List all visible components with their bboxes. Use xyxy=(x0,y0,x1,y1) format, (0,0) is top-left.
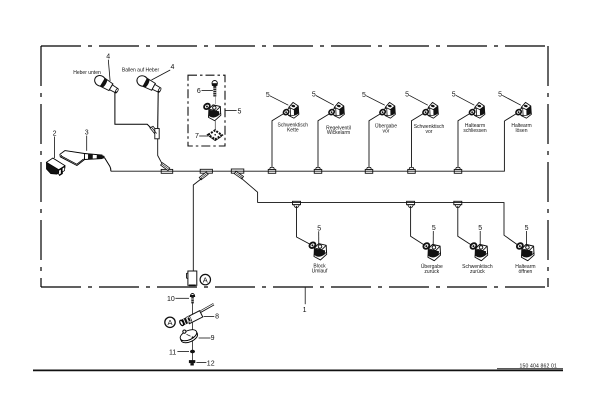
svg-text:4: 4 xyxy=(171,64,175,71)
svg-text:7: 7 xyxy=(195,133,199,140)
sensor B2 "Ballen auf Heber" (item 4) xyxy=(135,74,163,95)
wire flag F3 to second bus xyxy=(241,178,258,203)
svg-text:9: 9 xyxy=(211,335,215,342)
leader line callout 10 xyxy=(175,297,189,299)
flag clip F1 on bus xyxy=(161,163,173,174)
valve connector Y10 Haltearm öffnen xyxy=(516,242,534,261)
nut item 12 xyxy=(189,360,195,365)
valve connector Y3 xyxy=(379,102,395,118)
part number underline xyxy=(497,368,563,370)
flag clip F3 on bus xyxy=(231,169,244,179)
leader line callout 1 xyxy=(304,288,306,305)
connector housing item 2 xyxy=(47,158,66,175)
valve connector Y8 Übergabe zurück xyxy=(422,242,440,261)
svg-text:12: 12 xyxy=(207,361,215,368)
wire junction T1 to valve Y1 xyxy=(272,113,284,167)
svg-text:5: 5 xyxy=(498,92,502,99)
valve connector Y1 xyxy=(282,102,298,118)
frame: harness boundary dash-dot border xyxy=(41,46,548,287)
svg-text:5: 5 xyxy=(432,225,436,232)
sensor item 8 with cable xyxy=(179,304,214,326)
leader 5 Y1 xyxy=(270,96,288,105)
valve connector Y4 xyxy=(422,102,438,118)
label Y2 xyxy=(326,125,351,136)
svg-text:5: 5 xyxy=(478,225,482,232)
valve connector item 5 (exploded) xyxy=(203,103,221,121)
clip X joining sensor wires xyxy=(150,126,159,139)
svg-text:A: A xyxy=(203,275,208,284)
leader line callout 6 xyxy=(202,90,213,92)
wire junction T2 to valve Y2 xyxy=(318,113,330,167)
wire junction T3 to valve Y3 xyxy=(369,113,381,167)
junction T6 (second bus) xyxy=(293,201,301,207)
leader 5 Y9 xyxy=(479,231,481,246)
label Y8 xyxy=(421,263,443,275)
svg-text:5: 5 xyxy=(405,92,409,99)
washer item 11 xyxy=(190,350,195,354)
screw item 10 xyxy=(190,294,195,304)
label Y1 xyxy=(278,122,309,133)
svg-text:1: 1 xyxy=(303,307,307,314)
leader line callout 11 xyxy=(177,351,189,353)
leader 5 Y8 xyxy=(432,231,434,246)
valve connector Y6 xyxy=(515,102,531,118)
plug connector X1 (to control block) xyxy=(187,271,197,285)
svg-text:8: 8 xyxy=(215,314,219,321)
valve connector Y2 xyxy=(328,102,344,118)
wire from sensor B2 xyxy=(157,92,160,129)
junction T1 xyxy=(268,167,276,173)
junction T4 xyxy=(408,167,416,173)
leader line callout 9 xyxy=(199,337,211,339)
main bus wire xyxy=(111,121,505,171)
label Y10 xyxy=(515,264,535,275)
svg-text:öffnen: öffnen xyxy=(518,269,532,275)
leader line callout 4 right xyxy=(152,70,171,80)
flag clip F2 on bus xyxy=(199,169,212,180)
svg-text:zurück: zurück xyxy=(470,269,485,275)
detail mark A (sensor) xyxy=(165,317,175,327)
screw item 6 xyxy=(212,81,218,105)
svg-text:2: 2 xyxy=(53,131,57,138)
assembly centerline xyxy=(191,297,193,365)
svg-text:5: 5 xyxy=(312,92,316,99)
svg-text:5: 5 xyxy=(238,108,242,115)
bottom rule xyxy=(33,369,563,371)
junction T2 xyxy=(314,167,322,173)
inner dash-dot box (exploded valve connector detail) xyxy=(188,75,225,146)
axis line connector to gasket xyxy=(214,121,216,135)
svg-text:Heber unten: Heber unten xyxy=(73,70,101,76)
leader line callout 7 xyxy=(199,135,208,137)
wire from sensor B1 xyxy=(115,93,152,129)
svg-text:5: 5 xyxy=(317,225,321,232)
leader 5 Y2 xyxy=(316,96,334,106)
valve connector Y5 xyxy=(468,102,484,118)
leader line callout 4 left xyxy=(108,60,110,81)
leader 5 Y3 xyxy=(366,96,385,106)
svg-text:4: 4 xyxy=(106,54,110,61)
leader 5 Y5 xyxy=(456,95,475,105)
sensor B1 "Heber unten" (item 4) xyxy=(93,73,121,95)
svg-text:5: 5 xyxy=(525,225,529,232)
svg-text:6: 6 xyxy=(197,88,201,95)
label Y5 xyxy=(463,123,487,134)
leader line callout 8 xyxy=(204,315,215,317)
svg-text:A: A xyxy=(167,318,172,327)
leader line callout 5 detail xyxy=(225,110,236,112)
wire junction T5 to valve Y5 xyxy=(458,113,470,167)
wire clipX to flag1 xyxy=(158,139,163,165)
valve connector Y9 Schwenktisch zurück xyxy=(469,242,487,261)
leader line callout 12 xyxy=(196,362,206,364)
svg-text:3: 3 xyxy=(85,130,89,137)
svg-text:Kette: Kette xyxy=(287,127,299,133)
gasket item 7 xyxy=(208,130,222,140)
svg-text:11: 11 xyxy=(169,349,176,356)
second bus wire xyxy=(258,203,519,246)
label Y9 xyxy=(462,264,493,275)
svg-text:vor: vor xyxy=(383,129,390,135)
svg-text:Ballen auf Heber: Ballen auf Heber xyxy=(122,68,160,74)
svg-text:schliessen: schliessen xyxy=(463,128,487,134)
svg-text:vor: vor xyxy=(426,129,433,135)
cable boot item 3 xyxy=(60,151,105,166)
svg-text:5: 5 xyxy=(452,92,456,99)
label Y3 xyxy=(375,123,397,135)
junction T8 (second bus) xyxy=(454,201,462,207)
svg-text:Wickelarm: Wickelarm xyxy=(327,130,350,136)
svg-text:lösen: lösen xyxy=(516,128,528,134)
leader line callout 2 xyxy=(54,137,56,159)
label Y6 xyxy=(511,123,531,134)
bracket item 9 xyxy=(179,327,200,345)
wire from item 3 to bus xyxy=(105,158,111,172)
label Y4 xyxy=(414,124,445,135)
wire flag F2 down to plug A xyxy=(193,178,202,271)
svg-text:Umlauf: Umlauf xyxy=(312,269,328,275)
leader 5 Y10 xyxy=(526,231,528,246)
junction T3 xyxy=(365,167,373,173)
leader 5 Y6 xyxy=(502,95,521,105)
svg-text:10: 10 xyxy=(167,296,175,303)
junction T7 (second bus) xyxy=(407,201,415,207)
wire bus end to valve Y6 xyxy=(504,113,516,121)
wire junction T4 to valve Y4 xyxy=(412,113,424,167)
svg-text:5: 5 xyxy=(362,92,366,99)
valve connector Y7 Block Umlauf xyxy=(308,241,326,260)
svg-text:zurück: zurück xyxy=(424,269,439,275)
label Y7 xyxy=(312,264,328,275)
wire T8 to valve Y9 xyxy=(458,206,473,246)
svg-text:5: 5 xyxy=(266,92,270,99)
junction T5 xyxy=(454,167,462,173)
leader line callout 3 xyxy=(86,136,88,151)
detail mark A (plug) xyxy=(200,274,210,284)
wire T6 to valve Y7 xyxy=(297,206,312,245)
leader 5 Y4 xyxy=(409,95,428,105)
leader 5 Y7 xyxy=(318,231,320,245)
wire T7 to valve Y8 xyxy=(411,206,426,246)
